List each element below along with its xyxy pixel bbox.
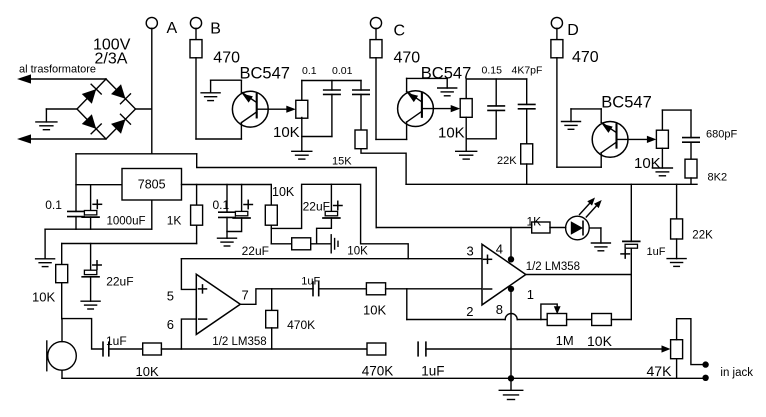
svg-text:22uF: 22uF xyxy=(242,244,269,258)
svg-text:47K: 47K xyxy=(647,363,673,379)
svg-text:3: 3 xyxy=(467,244,474,259)
svg-text:4: 4 xyxy=(496,242,503,257)
svg-text:in jack: in jack xyxy=(720,367,753,379)
svg-text:22uF: 22uF xyxy=(303,200,330,214)
svg-text:470: 470 xyxy=(572,49,599,66)
svg-text:0.1: 0.1 xyxy=(213,198,230,212)
svg-text:10K: 10K xyxy=(587,333,613,349)
svg-text:1K: 1K xyxy=(527,215,542,229)
svg-text:470: 470 xyxy=(213,50,240,67)
svg-text:7: 7 xyxy=(242,288,249,303)
svg-text:8: 8 xyxy=(496,302,503,317)
svg-text:1000uF: 1000uF xyxy=(107,216,146,228)
svg-text:1uF: 1uF xyxy=(647,246,666,258)
svg-text:0.15: 0.15 xyxy=(482,65,503,77)
svg-text:5: 5 xyxy=(167,289,174,304)
svg-text:1: 1 xyxy=(527,287,534,302)
svg-text:C: C xyxy=(394,23,406,40)
svg-text:6: 6 xyxy=(167,317,174,332)
svg-text:470: 470 xyxy=(394,50,421,67)
svg-text:0.1: 0.1 xyxy=(45,198,62,212)
svg-text:1K: 1K xyxy=(167,214,182,228)
svg-text:1uF: 1uF xyxy=(421,364,444,379)
svg-text:BC547: BC547 xyxy=(240,65,290,83)
svg-text:BC547: BC547 xyxy=(601,94,651,112)
svg-text:7805: 7805 xyxy=(138,178,166,192)
svg-text:10K: 10K xyxy=(363,303,386,318)
svg-text:B: B xyxy=(210,21,221,38)
svg-text:22K: 22K xyxy=(497,155,517,167)
svg-text:10K: 10K xyxy=(273,124,300,141)
svg-text:10K: 10K xyxy=(634,155,661,172)
svg-text:10K: 10K xyxy=(438,125,465,142)
svg-text:15K: 15K xyxy=(332,156,352,168)
svg-text:470K: 470K xyxy=(287,318,315,332)
svg-text:1/2 LM358: 1/2 LM358 xyxy=(212,336,266,348)
svg-text:1/2 LM358: 1/2 LM358 xyxy=(526,261,580,273)
svg-text:2: 2 xyxy=(466,304,473,319)
svg-text:10K: 10K xyxy=(136,364,159,379)
svg-text:al trasformatore: al trasformatore xyxy=(19,64,96,76)
svg-text:10K: 10K xyxy=(32,290,55,305)
svg-text:470K: 470K xyxy=(362,364,394,379)
svg-text:10K: 10K xyxy=(347,246,368,258)
svg-text:22K: 22K xyxy=(692,230,713,242)
svg-text:BC547: BC547 xyxy=(421,65,471,83)
svg-text:1uF: 1uF xyxy=(106,334,127,348)
svg-text:D: D xyxy=(567,22,579,39)
svg-text:680pF: 680pF xyxy=(706,129,737,141)
svg-text:4K7pF: 4K7pF xyxy=(512,65,543,77)
svg-text:1uF: 1uF xyxy=(301,276,320,288)
svg-text:1M: 1M xyxy=(556,333,574,348)
svg-text:22uF: 22uF xyxy=(106,275,133,289)
svg-text:0.1: 0.1 xyxy=(302,65,317,77)
svg-text:10K: 10K xyxy=(272,185,295,199)
svg-text:2/3A: 2/3A xyxy=(95,51,128,68)
svg-text:8K2: 8K2 xyxy=(708,172,728,184)
svg-text:0.01: 0.01 xyxy=(332,65,353,77)
svg-text:A: A xyxy=(167,20,178,37)
